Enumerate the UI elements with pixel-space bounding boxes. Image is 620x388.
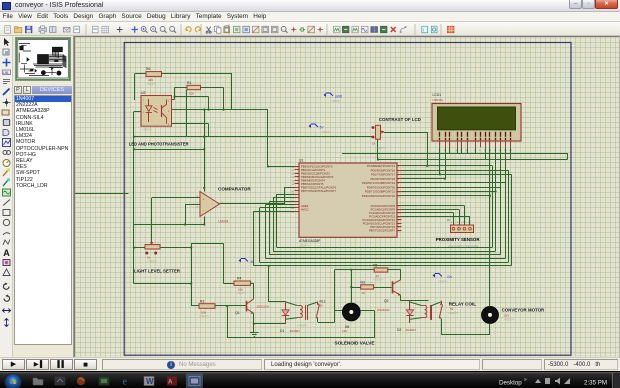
wire [191, 243, 193, 306]
wire [227, 337, 374, 339]
wire [441, 334, 490, 336]
svg-text:5v: 5v [251, 260, 255, 264]
svg-text:A: A [168, 380, 173, 386]
wire [445, 147, 447, 178]
wire [276, 194, 278, 247]
wire [284, 187, 286, 204]
wire [500, 147, 502, 254]
wire [75, 193, 129, 195]
relay coil RL1 [297, 299, 326, 327]
label COMPARATOR [218, 187, 251, 192]
svg-text:22: 22 [398, 206, 401, 208]
svg-text:8: 8 [479, 150, 481, 152]
svg-text:Desktop: Desktop [499, 380, 522, 387]
net label 5v [239, 259, 255, 265]
svg-text:10: 10 [361, 291, 365, 295]
node junction [268, 265, 270, 267]
svg-text:R3: R3 [361, 280, 365, 284]
wire [464, 206, 466, 225]
svg-text:D1: D1 [280, 329, 284, 333]
svg-text:»: » [524, 377, 527, 383]
wire [273, 198, 275, 251]
node junction [439, 173, 497, 197]
left tool strip [0, 36, 13, 357]
svg-text:12v: 12v [447, 275, 453, 279]
svg-text:GND: GND [335, 95, 343, 99]
wire [402, 209, 460, 211]
wire [410, 318, 422, 319]
svg-text:<TEXT>: <TEXT> [438, 280, 448, 284]
label SOLENOID VALVE [335, 340, 375, 345]
wire [427, 132, 429, 166]
diode D1 [280, 302, 300, 333]
svg-text:1: 1 [451, 222, 453, 224]
wire [317, 319, 319, 323]
svg-text:ATMEGA328P: ATMEGA328P [299, 239, 321, 243]
wire [441, 319, 443, 335]
svg-text:J1: J1 [447, 218, 450, 222]
svg-text:<TEXT>: <TEXT> [146, 82, 157, 86]
svg-text:<TEXT>: <TEXT> [448, 311, 459, 315]
wire [253, 265, 511, 267]
svg-text:<TEXT>: <TEXT> [321, 130, 331, 134]
relay switch RL2 contact [439, 301, 442, 319]
node junction [184, 187, 205, 226]
ground [250, 333, 259, 337]
wire [220, 203, 285, 205]
wire [175, 87, 224, 89]
net label GND [324, 93, 343, 103]
wire [160, 247, 191, 249]
toolbar [0, 22, 620, 36]
net label 5V [309, 124, 332, 134]
svg-text:PD6/AIN0/OC0A/PCINT22: PD6/AIN0/OC0A/PCINT22 [362, 194, 396, 198]
wire [402, 170, 509, 172]
svg-text:Q1: Q1 [235, 311, 240, 315]
wire [175, 96, 209, 98]
svg-text:A: A [3, 248, 10, 258]
window title bar [0, 0, 620, 12]
wire [450, 147, 476, 153]
wire [259, 208, 261, 262]
wire [208, 124, 210, 137]
svg-text:16: 16 [291, 174, 294, 176]
potentiometer RV2 contrast [372, 125, 386, 150]
wire [453, 213, 455, 225]
wire [227, 306, 229, 338]
wire [402, 212, 454, 214]
svg-text:<TEXT>: <TEXT> [504, 318, 515, 322]
node junction [133, 136, 206, 151]
label CONVEYOR MOTOR [502, 307, 545, 321]
svg-text:LM016L: LM016L [433, 98, 444, 102]
status row [0, 357, 620, 371]
label RELAY COIL [449, 301, 477, 306]
wire [260, 207, 295, 209]
wire [134, 74, 136, 100]
wire [135, 73, 233, 75]
wire [223, 88, 225, 110]
svg-text:R2: R2 [200, 299, 204, 303]
wire [134, 224, 204, 226]
svg-text:AVCC: AVCC [301, 208, 309, 212]
svg-text:18: 18 [291, 180, 294, 182]
wire [334, 270, 336, 311]
wire [402, 174, 512, 176]
wire [253, 211, 294, 213]
svg-text:12: 12 [398, 196, 401, 198]
wire [400, 295, 402, 301]
label CONTRAST OF LCD [379, 117, 421, 122]
wire [402, 205, 465, 207]
wire [268, 166, 295, 168]
wire [567, 153, 569, 159]
wire [174, 88, 176, 100]
taskbar [0, 371, 620, 388]
svg-text:CONTRAST OF LCD: CONTRAST OF LCD [379, 117, 421, 122]
wire [204, 110, 206, 188]
connector J1 CONN-SIL4 [447, 218, 474, 233]
diode D2 [397, 301, 416, 332]
wire [378, 159, 568, 161]
wire [134, 111, 141, 113]
svg-text:<TEXT>: <TEXT> [236, 291, 247, 295]
svg-text:-: - [203, 209, 204, 213]
wire [335, 310, 343, 312]
svg-text:Q2: Q2 [384, 299, 389, 303]
wire [260, 262, 509, 264]
svg-text:RELAY COIL: RELAY COIL [449, 301, 477, 306]
wire [489, 324, 491, 334]
svg-text:LCD1: LCD1 [433, 93, 442, 97]
svg-text:2:35 PM: 2:35 PM [584, 380, 607, 387]
svg-text:<TEXT>: <TEXT> [331, 99, 341, 103]
wire [489, 147, 491, 307]
svg-text:15: 15 [291, 170, 294, 172]
svg-text:4: 4 [398, 179, 400, 181]
svg-text:<TEXT>: <TEXT> [142, 128, 153, 132]
wire [253, 211, 255, 265]
node junction [133, 247, 193, 285]
wire [208, 97, 210, 110]
svg-text:PB7/TOSC2/XTAL2/PCINT7: PB7/TOSC2/XTAL2/PCINT7 [301, 189, 337, 193]
svg-text:SOLENOID VALVE: SOLENOID VALVE [335, 340, 375, 345]
wire [492, 166, 494, 248]
wire [401, 300, 429, 302]
svg-text:5V: 5V [320, 303, 324, 307]
wire [151, 198, 153, 242]
wire [172, 123, 209, 125]
wire [269, 254, 500, 256]
node junction [350, 269, 352, 288]
svg-text:1N4007: 1N4007 [406, 328, 417, 332]
svg-text:1k: 1k [372, 142, 376, 146]
svg-text:2: 2 [197, 207, 199, 209]
menu bar [0, 12, 620, 22]
relay switch RL1 contact [316, 302, 319, 319]
op-amp U3:A comparator [197, 192, 229, 224]
transistor Q1 [235, 299, 269, 315]
wire [133, 112, 135, 284]
svg-text:<TEXT>: <TEXT> [373, 278, 384, 282]
wire [335, 269, 375, 271]
wire [231, 74, 233, 110]
net label 12v [433, 274, 453, 284]
svg-text:U2: U2 [141, 91, 145, 95]
svg-text:R6: R6 [146, 67, 150, 71]
wire [402, 187, 501, 189]
svg-text:PROXIMITY SENSOR: PROXIMITY SENSOR [436, 237, 481, 242]
wire [286, 302, 298, 306]
wire [285, 187, 295, 189]
svg-text:10: 10 [489, 150, 492, 152]
wire [510, 147, 512, 159]
wire [342, 153, 568, 155]
schematic sheet border frame [124, 43, 571, 356]
wire [269, 201, 271, 255]
wire [495, 147, 497, 251]
wire [432, 302, 441, 306]
wire [273, 197, 295, 199]
wire [402, 191, 496, 193]
node junction [267, 165, 269, 167]
svg-text:20: 20 [291, 208, 294, 210]
label LED AND PHOTOTRANSISTER [129, 142, 189, 147]
motor conveyor [482, 307, 499, 324]
wire [251, 283, 254, 285]
svg-text:2: 2 [457, 222, 459, 224]
wire [152, 197, 200, 199]
svg-text:<TEXT>: <TEXT> [147, 260, 158, 264]
svg-text:12V: 12V [342, 329, 347, 333]
wire [223, 243, 225, 283]
wire [191, 305, 199, 307]
wire [402, 216, 471, 218]
wire [253, 313, 255, 332]
resistor R4 [234, 277, 251, 296]
svg-text:5: 5 [398, 183, 400, 185]
motor KB solenoid valve [342, 303, 360, 333]
wire [286, 318, 298, 319]
svg-text:5V: 5V [320, 126, 325, 130]
wire [186, 90, 188, 137]
wire [334, 311, 336, 323]
wire [400, 270, 402, 280]
microcontroller U1 ATMEGA328P [291, 159, 401, 248]
resistor R5 [373, 263, 388, 281]
wire [384, 132, 427, 134]
wire [185, 205, 187, 225]
svg-text:LED AND PHOTOTRANSISTER: LED AND PHOTOTRANSISTER [129, 142, 189, 147]
resistor R2 [199, 299, 215, 318]
resistor R1 [187, 81, 201, 95]
wire [402, 195, 491, 197]
wire [269, 201, 294, 203]
svg-text:U1: U1 [299, 159, 303, 163]
wire [439, 147, 441, 174]
wire [268, 266, 270, 302]
svg-text:PROXIMITY SENSOR: PROXIMITY SENSOR [448, 244, 479, 248]
svg-text:1N4007: 1N4007 [290, 329, 301, 333]
wire [402, 165, 493, 167]
wire [277, 247, 493, 249]
wire [191, 243, 223, 245]
wire [505, 147, 507, 258]
wire [459, 209, 461, 225]
wire [269, 301, 286, 303]
svg-text:PB7/TOSC2/PCINT7: PB7/TOSC2/PCINT7 [369, 228, 396, 232]
node junction [377, 158, 428, 167]
svg-text:LBL: LBL [3, 71, 9, 75]
resistor R6 [146, 67, 162, 86]
svg-text:CONVEYOR MOTOR: CONVEYOR MOTOR [502, 307, 545, 312]
wire [253, 283, 255, 298]
svg-text:R1: R1 [187, 81, 191, 85]
wire [410, 302, 422, 306]
wire [360, 310, 374, 312]
svg-text:10: 10 [291, 191, 294, 193]
label LIGHT LEVEL SETTER [134, 269, 181, 274]
label PROXIMITY SENSOR [436, 237, 481, 248]
svg-text:i: i [423, 28, 424, 34]
wire [204, 217, 206, 225]
wire [265, 205, 267, 259]
svg-text:<TEXT>: <TEXT> [375, 146, 386, 150]
svg-text:25: 25 [398, 220, 401, 222]
svg-text:COMPARATOR: COMPARATOR [218, 187, 251, 192]
wire [266, 258, 506, 260]
wire [351, 270, 353, 304]
svg-text:17: 17 [291, 177, 294, 179]
svg-text:19: 19 [291, 184, 294, 186]
wire [254, 323, 286, 325]
svg-text:<TEXT>: <TEXT> [199, 314, 210, 318]
wire [273, 251, 496, 253]
node junction [173, 95, 224, 110]
svg-text:<TEXT>: <TEXT> [297, 324, 308, 328]
wire [351, 287, 360, 289]
wire [134, 136, 373, 138]
object selector panel [13, 36, 74, 357]
wire [508, 170, 510, 262]
wire [485, 147, 487, 159]
svg-text:10k: 10k [189, 91, 194, 95]
resistor R3 [361, 280, 374, 295]
wire [172, 99, 175, 101]
wire [134, 247, 145, 249]
relay coil RL2 [422, 305, 459, 320]
LCD display LCD1 LM016L [432, 93, 521, 152]
wire [388, 269, 401, 271]
svg-text:LM324: LM324 [219, 220, 229, 224]
wire [185, 204, 200, 206]
wire [374, 287, 392, 289]
optocoupler U2 [141, 91, 172, 132]
schematic canvas [74, 36, 620, 357]
wire [172, 109, 269, 111]
potentiometer RV1 light level setter [145, 241, 160, 264]
svg-text:e: e [123, 377, 128, 388]
wire [215, 305, 246, 307]
svg-text:2N2222A: 2N2222A [377, 308, 390, 312]
wire [223, 283, 234, 285]
wire [402, 182, 506, 184]
wire [377, 139, 379, 159]
wire [318, 322, 335, 324]
wire [134, 149, 204, 151]
svg-text:1: 1 [398, 166, 400, 168]
wire [134, 283, 191, 285]
svg-text:23: 23 [398, 213, 401, 215]
wire [267, 110, 269, 167]
wire [277, 194, 295, 196]
wire [469, 216, 471, 225]
node junction [226, 305, 255, 325]
svg-text:2N2222A: 2N2222A [257, 304, 270, 308]
wire [402, 178, 446, 180]
svg-text:D2: D2 [397, 328, 401, 332]
wire [204, 188, 206, 192]
wire [307, 302, 318, 306]
svg-text:+: + [203, 198, 205, 202]
transistor Q2 [377, 280, 401, 312]
wire [266, 204, 295, 206]
svg-text:LIGHT LEVEL SETTER: LIGHT LEVEL SETTER [134, 269, 181, 274]
wire [511, 174, 513, 265]
svg-text:R4: R4 [237, 277, 241, 281]
svg-text:28: 28 [398, 227, 401, 229]
wire [374, 311, 376, 338]
svg-text:W: W [146, 377, 154, 386]
